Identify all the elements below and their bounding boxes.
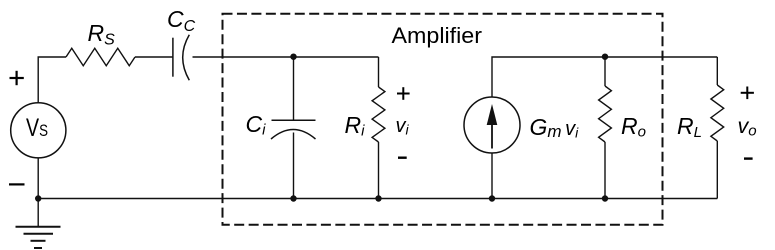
label CC: [167, 6, 196, 35]
wire: Ri bottom lead: [378, 142, 380, 199]
label - (vi): [398, 156, 407, 158]
junction dot: source bottom: [489, 195, 495, 201]
capacitor CC: [173, 35, 189, 80]
wire: Ro bottom lead: [604, 142, 606, 199]
label Amplifier: [392, 23, 483, 48]
wire: bottom rail: [38, 198, 717, 200]
label Gm vi: [530, 114, 580, 141]
junction dot: Ci bottom: [290, 195, 296, 201]
current source Gm vi: [464, 97, 520, 153]
voltage source VS: [11, 103, 66, 158]
label + (vi): [397, 87, 410, 100]
junction dot: ground node: [35, 195, 41, 201]
wire: current source bottom lead: [491, 153, 493, 199]
label vo: [738, 114, 757, 140]
wire: Cc to Ri corner (top-left rail): [193, 56, 379, 58]
wire: Vs top to Rs: [38, 57, 66, 103]
label + (source): [10, 71, 24, 85]
label Ro: [621, 113, 646, 141]
svg-text:Amplifier: Amplifier: [392, 23, 483, 48]
label Ri: [345, 112, 366, 140]
wire: RL bottom lead: [716, 141, 718, 199]
resistor RL: [711, 85, 724, 141]
amplifier dashed box: [223, 14, 663, 225]
label + (vo): [741, 87, 754, 100]
wire: Rs to Cc: [135, 56, 173, 58]
resistor Ri: [372, 87, 385, 142]
wire: Ci bottom lead: [293, 133, 295, 199]
wire: top-right rail (current source to RL): [492, 57, 717, 97]
label RL: [677, 113, 702, 141]
resistor RS: [66, 48, 135, 65]
junction dot: Ro top: [602, 54, 608, 60]
ground: [16, 199, 61, 249]
resistor Ro: [599, 86, 612, 142]
junction dot: Ci top: [290, 54, 296, 60]
wire: Ri top lead: [378, 57, 380, 87]
junction dot: Ro bottom: [602, 195, 608, 201]
label - (source): [9, 183, 25, 185]
wire: Ro top lead: [604, 57, 606, 86]
wire: Vs bottom lead: [37, 158, 39, 199]
label - (vo): [744, 157, 753, 159]
wire: RL top lead: [716, 57, 718, 85]
label RS: [88, 20, 116, 49]
label vi: [396, 115, 410, 138]
junction dot: Ri bottom: [375, 195, 381, 201]
capacitor Ci: [271, 120, 316, 139]
wire: Ci top lead: [293, 57, 295, 120]
label Ci: [246, 111, 267, 139]
